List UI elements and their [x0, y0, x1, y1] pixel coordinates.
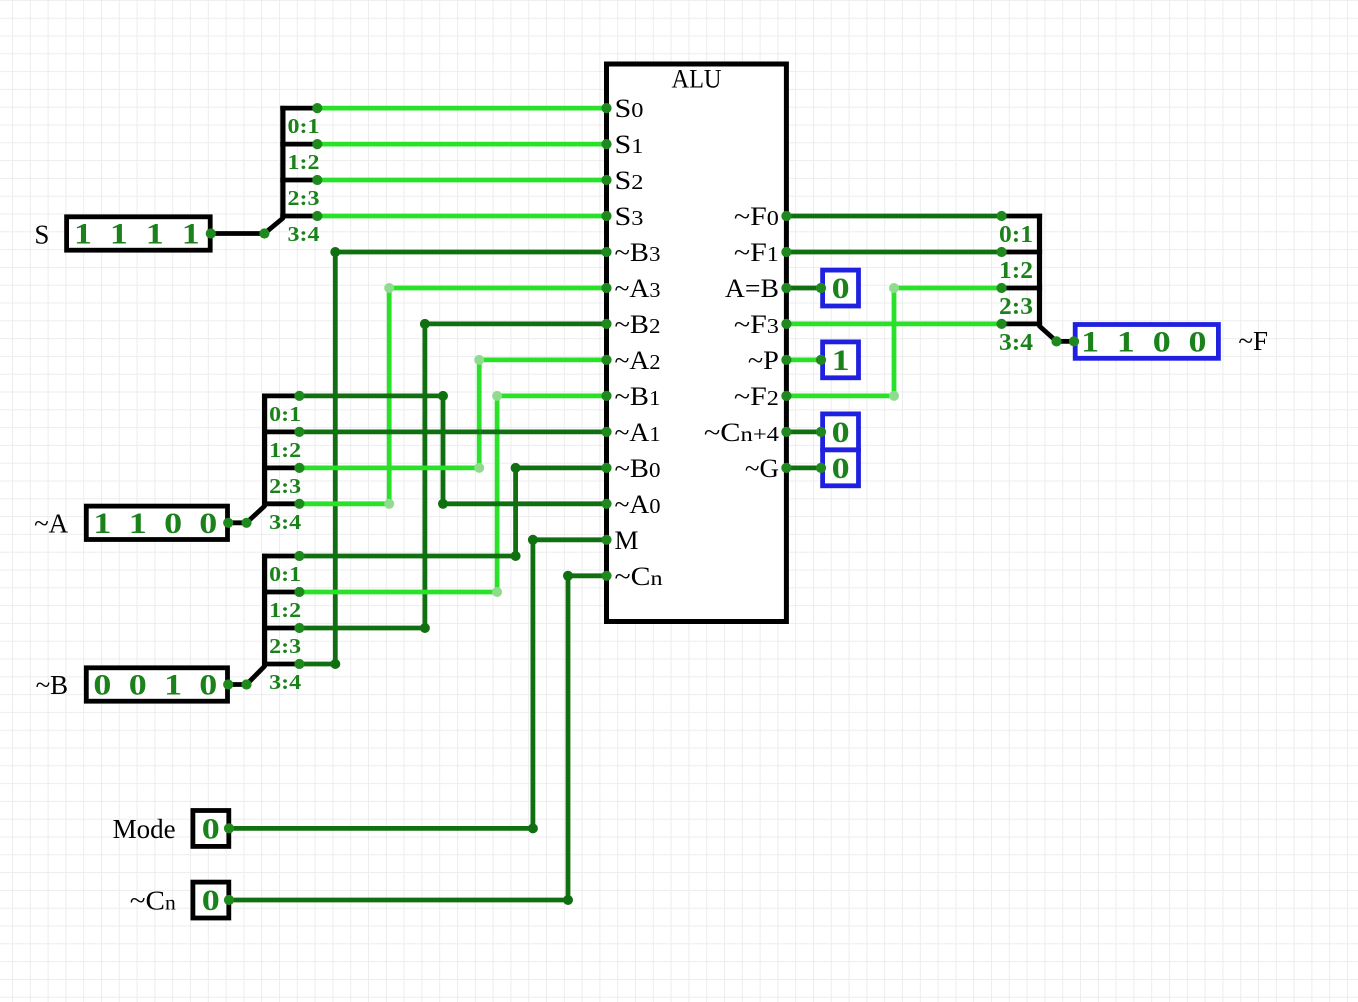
wire ~B1 net (vertical, high) — [495, 396, 500, 592]
svg-text:~F0: ~F0 — [734, 202, 779, 231]
pin ~Cn+4 input — [816, 427, 826, 437]
svg-text:0:1: 0:1 — [269, 562, 301, 586]
svg-text:1: 1 — [164, 668, 182, 701]
splitter input diagonal — [247, 506, 265, 523]
bus wire splitter SP4 to ~F box — [1057, 339, 1075, 344]
pin B3 — [601, 247, 611, 257]
svg-text:1:2: 1:2 — [269, 598, 301, 622]
svg-text:2:3: 2:3 — [269, 474, 301, 498]
input ~Cn (value 0) — [193, 882, 229, 918]
splitter pin stub 3:4 — [1002, 321, 1043, 326]
junction ~B2 corners — [420, 623, 430, 633]
splitter pin dot — [312, 211, 322, 221]
svg-text:~A1: ~A1 — [615, 418, 661, 447]
svg-text:0:1: 0:1 — [999, 222, 1033, 248]
svg-text:0:1: 0:1 — [269, 402, 301, 426]
svg-text:S3: S3 — [615, 202, 644, 231]
splitter pin dot — [997, 319, 1007, 329]
wire ~F1 net — [786, 250, 1001, 255]
svg-text:2:3: 2:3 — [288, 186, 320, 210]
junction ~A3 corners (pale) — [384, 499, 394, 509]
wire S1 net (high) — [317, 142, 606, 147]
wire S0 net (high) — [317, 106, 606, 111]
pin ~F1 — [781, 247, 791, 257]
pin ~G — [781, 463, 791, 473]
splitter pin stub 2:3 — [262, 626, 299, 631]
svg-text:S0: S0 — [615, 94, 644, 123]
splitter pin stub 1:2 — [262, 429, 299, 434]
svg-text:0: 0 — [199, 668, 217, 701]
bus wire S box to splitter SP1 — [211, 231, 265, 236]
pin S3 — [601, 211, 611, 221]
svg-text:2:3: 2:3 — [999, 294, 1033, 320]
splitter output diagonal — [1040, 326, 1057, 341]
svg-text:~B3: ~B3 — [615, 238, 661, 267]
splitter pin stub 0:1 — [1002, 214, 1043, 219]
wire ~A0 net (horizontals) — [299, 393, 443, 398]
splitter pin dot — [312, 103, 322, 113]
pin ~F3 — [781, 319, 791, 329]
splitter pin dot — [294, 551, 304, 561]
svg-text:0: 0 — [129, 668, 147, 701]
svg-text:0: 0 — [832, 416, 850, 449]
input ~B (value 0010) — [86, 668, 227, 701]
bus wire ~B box to splitter SP3 — [228, 682, 246, 687]
pin ~G input — [816, 463, 826, 473]
splitter pin dot — [294, 463, 304, 473]
svg-text:0: 0 — [199, 507, 217, 540]
wire ~B3 net (vertical) — [333, 252, 338, 664]
svg-text:~F: ~F — [1238, 326, 1268, 356]
svg-text:Mode: Mode — [113, 814, 176, 844]
svg-text:~P: ~P — [748, 346, 779, 375]
pin A3 — [601, 283, 611, 293]
splitter pin stub 2:3 — [280, 178, 317, 183]
splitter pin stub 3:4 — [262, 501, 299, 506]
svg-text:~A: ~A — [34, 508, 69, 538]
wire ~B2 net (horizontals) — [299, 626, 425, 631]
splitter pin dot — [294, 499, 304, 509]
junction ~Cn corner — [563, 895, 573, 905]
pin ~P input — [816, 355, 826, 365]
svg-text:~G: ~G — [745, 454, 779, 483]
wire M net (horizontals) — [231, 826, 533, 831]
splitter pin stub 0:1 — [262, 554, 299, 559]
svg-text:~B: ~B — [36, 670, 69, 700]
svg-text:0: 0 — [832, 452, 850, 485]
wire ~B0 net (horizontals) — [299, 554, 515, 559]
wire ~A3 net (vertical, high) — [387, 288, 392, 504]
splitter pin dot — [294, 391, 304, 401]
pin B2 — [601, 319, 611, 329]
wire ~G net — [786, 465, 821, 470]
output A=B (value 0) — [823, 270, 859, 306]
pin Cn — [601, 571, 611, 581]
pin ~Cn output — [224, 895, 234, 905]
input S (value 1111) — [67, 217, 211, 250]
pin B0 — [601, 463, 611, 473]
svg-text:S2: S2 — [615, 166, 644, 195]
svg-text:3:4: 3:4 — [269, 510, 302, 534]
svg-text:1: 1 — [129, 507, 147, 540]
splitter bar — [262, 394, 267, 506]
pin ~F2 — [781, 391, 791, 401]
splitter pin dot — [997, 283, 1007, 293]
svg-text:2:3: 2:3 — [269, 634, 301, 658]
pin A2 — [601, 355, 611, 365]
pin Mode output — [224, 823, 234, 833]
wire ~F3 net (high) — [786, 321, 1001, 326]
wire ~A0 net (vertical) — [441, 396, 446, 504]
svg-text:~A0: ~A0 — [615, 490, 661, 519]
wire ~Cn+4 net — [786, 429, 821, 434]
output ~P (value 1) — [823, 342, 859, 378]
svg-text:1: 1 — [1081, 325, 1099, 358]
svg-text:~B1: ~B1 — [615, 382, 661, 411]
wire A=B net — [786, 286, 821, 291]
svg-text:~F2: ~F2 — [734, 382, 779, 411]
pin B1 — [601, 391, 611, 401]
svg-text:0:1: 0:1 — [288, 114, 320, 138]
pin ~Cn+4 — [781, 427, 791, 437]
junction ~B1 corners (pale) — [492, 587, 502, 597]
pin A=B input — [816, 283, 826, 293]
pin S output — [206, 228, 216, 238]
wire S2 net (high) — [317, 178, 606, 183]
junction ~F2 corners (pale) — [889, 283, 899, 293]
splitter input diagonal — [264, 218, 283, 233]
splitter pin dot — [997, 211, 1007, 221]
svg-text:~F1: ~F1 — [734, 238, 779, 267]
ALU U1 body — [607, 64, 787, 622]
junction ~B0 corners — [511, 551, 521, 561]
pin S1 — [601, 139, 611, 149]
pin A=B — [781, 283, 791, 293]
wire ~A2 net (horizontals, high) — [299, 465, 479, 470]
splitter pin stub 2:3 — [262, 465, 299, 470]
wire ~A1 net — [299, 429, 606, 434]
svg-text:~F3: ~F3 — [734, 310, 779, 339]
svg-text:3:4: 3:4 — [288, 222, 321, 246]
splitter pin dot — [312, 139, 322, 149]
svg-text:1: 1 — [110, 217, 128, 250]
splitter pin stub 1:2 — [262, 590, 299, 595]
svg-text:1:2: 1:2 — [288, 150, 320, 174]
wire ~B1 net (horizontals, high) — [299, 590, 497, 595]
svg-text:S: S — [34, 220, 49, 250]
wire ~F0 net — [786, 214, 1001, 219]
splitter pin dot — [294, 587, 304, 597]
svg-text:0: 0 — [202, 812, 220, 845]
svg-text:~Cn: ~Cn — [615, 562, 664, 591]
svg-text:~B2: ~B2 — [615, 310, 661, 339]
junction ~A0 corners — [438, 391, 448, 401]
svg-text:3:4: 3:4 — [999, 330, 1033, 356]
splitter input diagonal — [247, 666, 265, 684]
wire ~A2 net (vertical, high) — [477, 360, 482, 468]
pin A1 — [601, 427, 611, 437]
svg-text:1: 1 — [146, 217, 164, 250]
svg-text:0: 0 — [202, 884, 220, 917]
wire ~B0 net (vertical) — [513, 468, 518, 556]
splitter pin dot — [997, 247, 1007, 257]
wire M net (vertical) — [531, 540, 536, 829]
pin S0 — [601, 103, 611, 113]
svg-text:1: 1 — [1117, 325, 1135, 358]
pin ~B output — [223, 679, 233, 689]
svg-text:A=B: A=B — [725, 274, 779, 303]
svg-text:ALU: ALU — [672, 65, 722, 94]
wire ~F2 net (horizontals, high) — [786, 393, 894, 398]
pin S2 — [601, 175, 611, 185]
splitter pin stub 2:3 — [1002, 286, 1043, 291]
svg-text:1:2: 1:2 — [999, 258, 1033, 284]
wire ~F2 net (vertical, high) — [892, 288, 897, 396]
junction ~B3 corners — [330, 659, 340, 669]
svg-text:1:2: 1:2 — [269, 438, 301, 462]
svg-text:~B0: ~B0 — [615, 454, 661, 483]
svg-text:0: 0 — [832, 272, 850, 305]
input Mode (value 0) — [193, 811, 229, 847]
wire ~P net (high) — [786, 357, 821, 362]
svg-text:~A3: ~A3 — [615, 274, 661, 303]
svg-text:1: 1 — [832, 344, 850, 377]
pin M — [601, 535, 611, 545]
splitter pin dot — [312, 175, 322, 185]
splitter pin dot — [294, 427, 304, 437]
svg-text:1: 1 — [74, 217, 92, 250]
pin ~F0 — [781, 211, 791, 221]
splitter bar — [262, 554, 267, 666]
splitter pin stub 3:4 — [262, 662, 299, 667]
splitter pin stub 1:2 — [280, 142, 317, 147]
splitter pin stub 0:1 — [262, 393, 299, 398]
wire ~Cn net (horizontals) — [231, 898, 568, 903]
output ~G (value 0) — [823, 450, 859, 486]
svg-text:~A2: ~A2 — [615, 346, 661, 375]
svg-text:3:4: 3:4 — [269, 670, 302, 694]
svg-text:1: 1 — [182, 217, 200, 250]
svg-text:S1: S1 — [615, 130, 644, 159]
pin A0 — [601, 499, 611, 509]
splitter pin dot — [294, 623, 304, 633]
junction M corner — [528, 823, 538, 833]
output ~F (value 1100) — [1075, 325, 1218, 359]
wire S3 net (high) — [317, 214, 606, 219]
wire ~A3 net (horizontals, high) — [299, 501, 389, 506]
splitter pin dot — [294, 659, 304, 669]
splitter SP4 (~F bus 4:1) — [1037, 214, 1042, 326]
junction ~A2 corners (pale) — [474, 463, 484, 473]
wire ~B2 net (vertical) — [422, 324, 427, 628]
svg-text:0: 0 — [1153, 325, 1171, 358]
pin ~P — [781, 355, 791, 365]
wire ~Cn net (vertical) — [566, 576, 571, 900]
svg-text:M: M — [615, 526, 639, 555]
splitter pin stub 1:2 — [1002, 250, 1043, 255]
splitter pin stub 0:1 — [280, 106, 317, 111]
splitter pin stub 3:4 — [280, 214, 317, 219]
pin ~F input — [1069, 336, 1079, 346]
wire ~B3 net (horizontals) — [299, 662, 335, 667]
svg-text:0: 0 — [93, 668, 111, 701]
output ~Cn+4 (value 0) — [823, 414, 859, 450]
pin ~A output — [223, 518, 233, 528]
svg-text:1: 1 — [93, 507, 111, 540]
bus wire ~A box to splitter SP2 — [228, 520, 246, 525]
svg-text:~Cn+4: ~Cn+4 — [704, 418, 780, 447]
splitter bar — [280, 106, 285, 218]
svg-text:0: 0 — [1189, 325, 1207, 358]
input ~A (value 1100) — [86, 506, 227, 539]
svg-text:0: 0 — [164, 507, 182, 540]
